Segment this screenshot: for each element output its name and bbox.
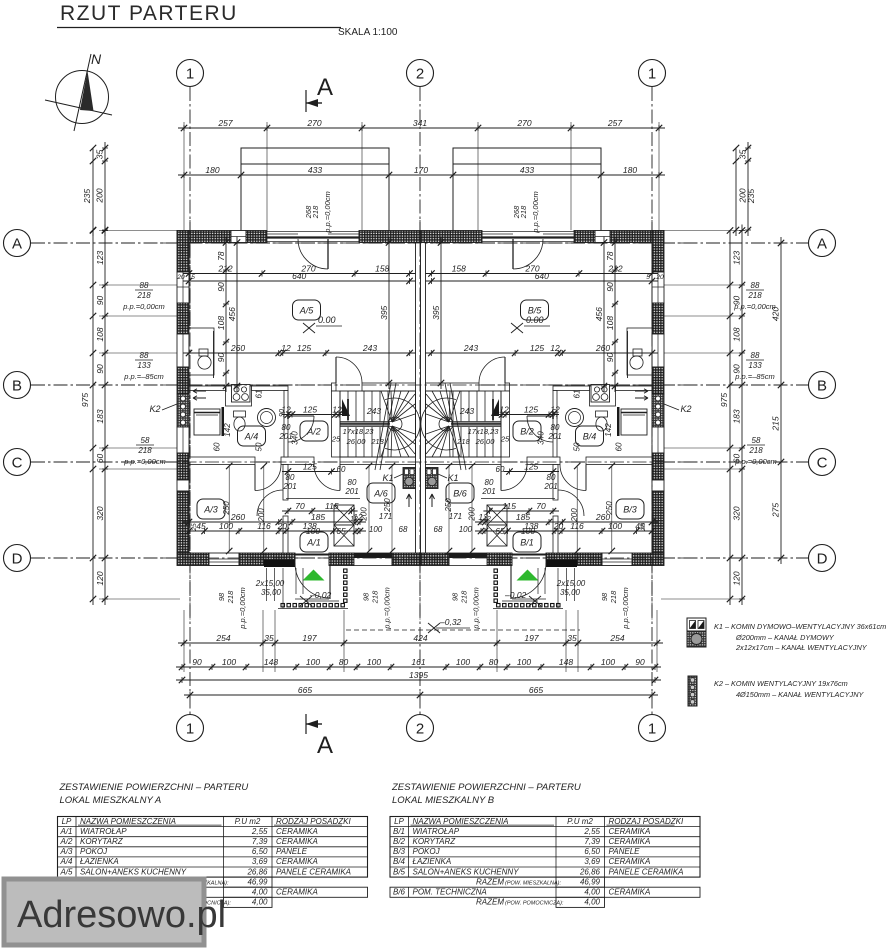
- svg-text:B: B: [817, 378, 827, 395]
- stair up arrow: [342, 399, 350, 416]
- interior dim line 212/270/158: [183, 273, 416, 275]
- bottom wall window dark 2: [354, 553, 392, 566]
- axis line 1b vertical right: [651, 87, 653, 714]
- svg-text:80: 80: [286, 473, 295, 482]
- svg-text:6,50: 6,50: [584, 847, 600, 856]
- svg-text:108: 108: [605, 316, 615, 330]
- bottom wall hatch 2: [329, 553, 354, 566]
- interior vertical dims left room: [225, 237, 227, 393]
- svg-text:58: 58: [141, 436, 150, 445]
- svg-text:201: 201: [278, 432, 292, 441]
- svg-text:80: 80: [551, 423, 560, 432]
- svg-text:35: 35: [264, 633, 274, 643]
- dim extension lines bottom: [183, 610, 185, 672]
- svg-text:ZESTAWIENIE POWIERZCHNI – P: ZESTAWIENIE POWIERZCHNI – PARTERU: [59, 782, 249, 793]
- stair up arrow: [491, 399, 499, 416]
- svg-text:CERAMIKA: CERAMIKA: [609, 827, 651, 836]
- svg-text:70: 70: [295, 501, 305, 511]
- svg-text:CERAMIKA: CERAMIKA: [609, 857, 651, 866]
- bathroom/corridor wall: [284, 391, 288, 458]
- svg-text:320: 320: [732, 506, 742, 520]
- svg-text:142: 142: [604, 423, 613, 437]
- svg-text:Ø200mm – KANAŁ DYMOWY: Ø200mm – KANAŁ DYMOWY: [735, 633, 835, 642]
- top dimension line row 1: [178, 127, 665, 129]
- K1 chimney block: [426, 468, 439, 489]
- svg-text:12: 12: [281, 343, 291, 353]
- svg-text:–0,32: –0,32: [439, 617, 462, 627]
- washbasin: [258, 409, 276, 427]
- svg-text:158: 158: [452, 264, 466, 274]
- svg-text:20: 20: [553, 521, 564, 531]
- svg-text:90: 90: [216, 353, 226, 363]
- room label A/2: [300, 421, 328, 441]
- room label A/1: [300, 532, 328, 552]
- svg-text:100: 100: [608, 521, 622, 531]
- roof outline left: [241, 148, 389, 232]
- svg-text:254: 254: [609, 633, 624, 643]
- stair treads upper: [347, 391, 349, 422]
- top wall hatched segment 3: [421, 231, 483, 243]
- svg-text:A: A: [817, 236, 827, 253]
- stair box: [340, 391, 416, 457]
- svg-text:424: 424: [413, 633, 427, 643]
- kitchen counter+sink along left wall: [189, 328, 214, 375]
- svg-text:90: 90: [635, 657, 645, 667]
- stair enclosure left wall: [332, 391, 341, 457]
- svg-text:98: 98: [451, 592, 460, 601]
- svg-text:7,39: 7,39: [252, 837, 268, 846]
- svg-text:2x15,00: 2x15,00: [255, 579, 285, 588]
- left wall hatch: [177, 303, 189, 334]
- svg-text:K2 – KOMIN WENTYLACYJNY 19: K2 – KOMIN WENTYLACYJNY 19x76cm: [714, 679, 848, 688]
- svg-text:183: 183: [95, 409, 105, 423]
- door A3->A1 swing: [558, 490, 584, 516]
- lintel line over A1 zone: [286, 498, 360, 500]
- svg-text:218: 218: [311, 205, 320, 219]
- svg-text:1: 1: [648, 721, 656, 738]
- corridor dims: [282, 414, 345, 416]
- stair mid rails: [340, 421, 392, 423]
- svg-text:26,86: 26,86: [579, 867, 601, 876]
- svg-text:80: 80: [489, 657, 499, 667]
- stair treads lower: [347, 427, 349, 457]
- svg-text:A/2: A/2: [59, 837, 73, 846]
- svg-text:58: 58: [752, 436, 761, 445]
- bottom wall window A3: [209, 553, 239, 566]
- svg-text:90: 90: [95, 364, 105, 374]
- room label B/1: [513, 532, 541, 552]
- svg-text:4,00: 4,00: [252, 888, 268, 897]
- svg-text:80: 80: [485, 478, 494, 487]
- svg-text:200: 200: [95, 188, 105, 203]
- svg-text:46,99: 46,99: [247, 877, 268, 886]
- svg-text:197: 197: [302, 633, 316, 643]
- svg-text:80: 80: [348, 478, 357, 487]
- room label B/2: [513, 421, 541, 441]
- svg-text:80: 80: [282, 423, 291, 432]
- interior vertical dim lines lower rooms: [228, 466, 230, 551]
- wiatrolap wall: [283, 465, 288, 501]
- axis bubble 2 bottom: [407, 715, 434, 742]
- axis bubble C left: [4, 449, 31, 476]
- svg-text:218: 218: [609, 590, 618, 604]
- svg-text:20: 20: [655, 274, 664, 281]
- svg-text:(POW. MIESZKALNA):: (POW. MIESZKALNA):: [505, 880, 561, 886]
- svg-text:3,69: 3,69: [252, 857, 268, 866]
- svg-text:125: 125: [530, 343, 544, 353]
- K2 chimney flue in wall: [652, 394, 664, 427]
- axis bubble A right: [809, 230, 836, 257]
- svg-text:2: 2: [416, 721, 424, 738]
- watermark Adresowo.pl: [4, 879, 226, 945]
- left wall window LW4: [652, 480, 664, 491]
- svg-text:200: 200: [257, 508, 266, 523]
- svg-text:120: 120: [95, 571, 105, 585]
- svg-text:218: 218: [137, 446, 152, 455]
- door in C wall to A3: [560, 465, 586, 491]
- door in C wall to A1: [314, 465, 340, 491]
- svg-text:p.p.=–85cm: p.p.=–85cm: [734, 372, 774, 381]
- svg-text:142: 142: [223, 423, 232, 437]
- svg-text:158: 158: [375, 264, 389, 274]
- left wall hatch bottom: [177, 491, 189, 553]
- svg-text:SKALA 1:100: SKALA 1:100: [338, 27, 398, 38]
- svg-text:218: 218: [456, 437, 470, 446]
- svg-text:215: 215: [771, 416, 781, 431]
- top wall hatched segment 1: [610, 231, 664, 243]
- svg-text:161: 161: [411, 657, 425, 667]
- svg-text:78: 78: [216, 251, 226, 261]
- svg-text:A/2: A/2: [306, 427, 321, 437]
- right dim 420/215/275: [780, 237, 782, 564]
- interior dim line 260/12/125/243: [183, 352, 416, 354]
- svg-text:243: 243: [366, 406, 381, 416]
- axis bubble D right: [809, 545, 836, 572]
- top wall hatched segment 1: [177, 231, 231, 243]
- stair treads upper: [492, 391, 494, 422]
- svg-text:2,55: 2,55: [583, 827, 600, 836]
- svg-text:A/5: A/5: [299, 306, 315, 316]
- svg-text:NAZWA POMIESZCZENIA: NAZWA POMIESZCZENIA: [80, 817, 176, 826]
- opening ticks corridor: [287, 412, 289, 419]
- svg-text:26,00: 26,00: [475, 437, 496, 446]
- left wall window LW3: [652, 427, 664, 453]
- svg-text:B/4: B/4: [393, 857, 406, 866]
- svg-text:235: 235: [82, 189, 92, 204]
- svg-text:20: 20: [176, 274, 185, 281]
- svg-text:CERAMIKA: CERAMIKA: [276, 827, 318, 836]
- svg-text:254: 254: [215, 633, 230, 643]
- bottom wall hatched corner: [177, 553, 209, 566]
- svg-text:257: 257: [607, 118, 622, 128]
- svg-text:RAZEM: RAZEM: [476, 898, 504, 907]
- svg-text:B: B: [12, 378, 22, 395]
- svg-text:270: 270: [306, 118, 321, 128]
- left wall extension lines: [99, 230, 177, 232]
- axis bubble 1 bottom right: [639, 715, 666, 742]
- toilet: [234, 411, 246, 417]
- svg-text:20: 20: [277, 521, 288, 531]
- svg-text:B/1: B/1: [393, 827, 405, 836]
- svg-text:133: 133: [137, 361, 151, 370]
- balcony window opening: [267, 232, 359, 242]
- svg-text:90: 90: [95, 296, 105, 306]
- stair winders: [449, 391, 460, 422]
- svg-text:270: 270: [516, 118, 531, 128]
- entry step edge: [512, 598, 546, 600]
- svg-text:17x18,23: 17x18,23: [343, 427, 375, 436]
- svg-text:A/3: A/3: [59, 847, 73, 856]
- svg-text:108: 108: [732, 327, 742, 341]
- door bathroom A4 swing: [527, 416, 553, 442]
- wiatrolap wall: [553, 465, 558, 501]
- svg-text:KORYTARZ: KORYTARZ: [80, 837, 124, 846]
- svg-text:100: 100: [219, 521, 233, 531]
- axis line 1 vertical: [189, 87, 191, 714]
- room label B/4: [576, 426, 604, 446]
- svg-text:PANELE: PANELE: [276, 847, 308, 856]
- axis bubble 1 top: [177, 60, 204, 87]
- svg-text:260: 260: [230, 343, 245, 353]
- svg-text:88: 88: [751, 281, 760, 290]
- svg-text:90: 90: [605, 353, 615, 363]
- axis bubble 1 bottom: [177, 715, 204, 742]
- kitchen hob 4 burners: [591, 385, 610, 403]
- svg-text:433: 433: [520, 165, 534, 175]
- svg-text:6,50: 6,50: [252, 847, 268, 856]
- washbasin: [566, 409, 584, 427]
- room label B/3: [616, 499, 644, 519]
- svg-text:78: 78: [605, 251, 615, 261]
- svg-text:120: 120: [732, 571, 742, 585]
- svg-text:p.p.=0,00cm: p.p.=0,00cm: [531, 191, 540, 233]
- svg-text:PANELE CERAMIKA: PANELE CERAMIKA: [609, 867, 684, 876]
- bottom dimension line row 2: [176, 666, 661, 668]
- bottom wall window dark 1: [546, 553, 577, 560]
- svg-text:100: 100: [517, 657, 531, 667]
- dashed walk line: [346, 629, 580, 631]
- svg-text:218: 218: [371, 590, 380, 604]
- svg-text:p.p.=0,00cm: p.p.=0,00cm: [733, 302, 775, 311]
- svg-text:B/2: B/2: [520, 427, 534, 437]
- svg-text:A/1: A/1: [59, 827, 72, 836]
- left wall hatch top: [177, 231, 189, 273]
- svg-text:90: 90: [192, 657, 202, 667]
- svg-text:2: 2: [416, 66, 424, 83]
- svg-text:B/3: B/3: [623, 505, 637, 515]
- svg-text:RAZEM: RAZEM: [476, 877, 504, 886]
- room label A/3: [197, 499, 225, 519]
- svg-text:p.p.=0,00cm: p.p.=0,00cm: [472, 587, 481, 629]
- svg-text:90: 90: [552, 409, 559, 417]
- left wall hatch bottom: [652, 491, 664, 553]
- axis bubble C right: [809, 449, 836, 476]
- svg-text:90: 90: [216, 282, 226, 292]
- svg-text:395: 395: [431, 305, 441, 319]
- interior dim line 640: [183, 280, 416, 282]
- svg-text:201: 201: [543, 482, 557, 491]
- stair enclosure left wall: [501, 391, 510, 457]
- svg-text:100: 100: [456, 657, 470, 667]
- svg-text:201: 201: [547, 432, 561, 441]
- party wall: [416, 243, 421, 554]
- svg-text:171: 171: [379, 512, 392, 521]
- K1 legend symbol: [687, 618, 706, 631]
- svg-text:D: D: [817, 551, 828, 568]
- svg-text:POM. TECHNICZNA: POM. TECHNICZNA: [413, 888, 487, 897]
- stair break line: [450, 383, 466, 470]
- stair mid rails: [449, 421, 501, 423]
- svg-text:50: 50: [255, 442, 264, 451]
- axis B horizontal: [31, 384, 808, 386]
- svg-text:B/4: B/4: [583, 432, 597, 442]
- svg-text:26,00: 26,00: [346, 437, 367, 446]
- svg-text:A: A: [12, 236, 22, 253]
- svg-text:183: 183: [732, 409, 742, 423]
- svg-text:POKOJ: POKOJ: [80, 847, 108, 856]
- svg-text:65: 65: [336, 526, 346, 536]
- svg-text:B/5: B/5: [393, 867, 406, 876]
- svg-text:100: 100: [306, 526, 320, 536]
- left wall window LW4: [177, 480, 189, 491]
- svg-text:2,55: 2,55: [251, 827, 268, 836]
- entrance door opening: [545, 553, 547, 566]
- top dimension line row 2: [178, 174, 665, 176]
- stair box: [426, 391, 502, 457]
- svg-text:A: A: [317, 732, 333, 759]
- svg-text:180: 180: [205, 165, 219, 175]
- svg-text:0.00: 0.00: [526, 315, 544, 325]
- svg-text:133: 133: [748, 361, 762, 370]
- building right unit (mirrored): [421, 231, 665, 609]
- door in C wall to A3: [255, 465, 281, 491]
- svg-text:B/3: B/3: [393, 847, 406, 856]
- kitchen hob 4 burners: [232, 385, 251, 403]
- svg-text:SALON+ANEKS KUCHENNY: SALON+ANEKS KUCHENNY: [413, 867, 520, 876]
- svg-text:P.U m2: P.U m2: [235, 817, 261, 826]
- svg-text:K1: K1: [447, 473, 458, 483]
- svg-text:K2: K2: [149, 404, 160, 414]
- svg-text:61: 61: [255, 390, 264, 399]
- bottom dimension line row 1: [178, 642, 663, 644]
- svg-text:26,86: 26,86: [246, 867, 268, 876]
- top wall hatched segment 3: [359, 231, 421, 243]
- bottom dimension 665+665: [184, 694, 658, 696]
- svg-text:80: 80: [547, 473, 556, 482]
- svg-text:100: 100: [367, 657, 381, 667]
- svg-text:p.p.=0,00cm: p.p.=0,00cm: [238, 587, 247, 629]
- bottom wall hatched corner: [632, 553, 664, 566]
- svg-text:p.p.=0,00cm: p.p.=0,00cm: [123, 457, 165, 466]
- K1 chimney block: [403, 468, 416, 489]
- svg-text:100: 100: [459, 525, 473, 534]
- svg-text:148: 148: [559, 657, 573, 667]
- svg-text:1: 1: [186, 721, 194, 738]
- svg-text:218: 218: [370, 437, 384, 446]
- left wall hatch: [652, 303, 664, 334]
- svg-text:35,00: 35,00: [261, 588, 282, 597]
- svg-text:p.p.=0,00cm: p.p.=0,00cm: [323, 191, 332, 233]
- axis bubble D left: [4, 545, 31, 572]
- svg-text:25: 25: [191, 523, 198, 532]
- svg-text:250: 250: [222, 501, 231, 516]
- svg-text:456: 456: [227, 307, 237, 321]
- svg-text:456: 456: [594, 307, 604, 321]
- bottom wall window dark 2: [449, 553, 487, 566]
- svg-text:80: 80: [339, 657, 349, 667]
- svg-text:LP: LP: [394, 817, 404, 826]
- svg-text:125: 125: [303, 405, 317, 415]
- C-axis interior wall: [586, 457, 652, 465]
- svg-text:148: 148: [264, 657, 278, 667]
- opening ticks corridor: [552, 412, 554, 419]
- svg-text:PANELE CERAMIKA: PANELE CERAMIKA: [276, 867, 351, 876]
- hall dim 185/12: [183, 521, 366, 523]
- svg-text:0.00: 0.00: [318, 315, 336, 325]
- svg-text:60: 60: [95, 454, 105, 464]
- svg-text:60: 60: [615, 442, 624, 451]
- top wall hatched segment 2: [246, 231, 267, 243]
- svg-text:170: 170: [414, 165, 428, 175]
- svg-text:108: 108: [95, 327, 105, 341]
- K1 vent arrow: [430, 494, 435, 507]
- svg-text:88: 88: [140, 351, 149, 360]
- left wall window LW1: [652, 272, 664, 303]
- axis C horizontal: [31, 461, 808, 463]
- svg-text:25: 25: [640, 523, 647, 532]
- toilet: [596, 411, 608, 417]
- svg-text:P.U m2: P.U m2: [567, 817, 593, 826]
- svg-text:70: 70: [536, 501, 546, 511]
- svg-text:B/5: B/5: [528, 306, 543, 316]
- svg-text:100: 100: [222, 657, 236, 667]
- svg-text:68: 68: [434, 525, 443, 534]
- door A3->A1 swing: [257, 490, 283, 516]
- svg-text:SALON+ANEKS KUCHENNY: SALON+ANEKS KUCHENNY: [80, 867, 187, 876]
- roof outline right: [453, 148, 601, 232]
- svg-text:A/6: A/6: [373, 489, 388, 499]
- room label A/5: [293, 300, 321, 320]
- svg-text:4,00: 4,00: [584, 888, 600, 897]
- svg-text:200: 200: [570, 508, 579, 523]
- entry stoop dotted border: [281, 569, 347, 607]
- left wall hatch: [652, 453, 664, 480]
- left wall window LW2: [177, 334, 189, 367]
- svg-text:395: 395: [379, 305, 389, 319]
- svg-text:CERAMIKA: CERAMIKA: [609, 837, 651, 846]
- interior vertical dim 395: [388, 237, 390, 390]
- svg-text:B/6: B/6: [393, 888, 406, 897]
- svg-text:201: 201: [282, 482, 296, 491]
- svg-text:108: 108: [216, 316, 226, 330]
- svg-text:K1: K1: [382, 473, 393, 483]
- bottom wall hatch 3: [392, 553, 421, 566]
- svg-text:CERAMIKA: CERAMIKA: [276, 888, 318, 897]
- dim extension lines top: [266, 122, 268, 230]
- svg-text:115: 115: [502, 501, 516, 511]
- svg-text:LP: LP: [62, 817, 72, 826]
- compass north arrow: [56, 71, 109, 124]
- bottom wall hatch: [577, 553, 602, 566]
- svg-text:640: 640: [535, 271, 549, 281]
- svg-text:WIATROŁAP: WIATROŁAP: [80, 827, 127, 836]
- svg-text:218: 218: [519, 205, 528, 219]
- K1 vent arrow: [407, 494, 412, 507]
- svg-text:243: 243: [362, 343, 377, 353]
- svg-text:ŁAZIENKA: ŁAZIENKA: [80, 857, 119, 866]
- svg-text:125: 125: [524, 462, 538, 472]
- svg-text:171: 171: [449, 512, 462, 521]
